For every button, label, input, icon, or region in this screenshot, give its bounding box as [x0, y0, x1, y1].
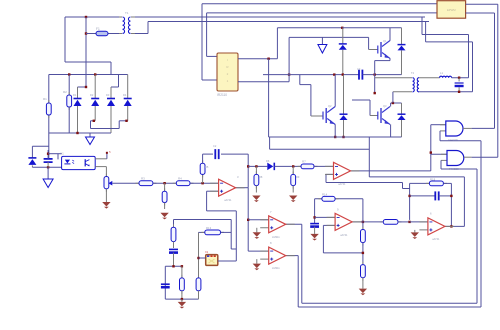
wire lamp right — [218, 260, 237, 262]
diode D8 leg — [342, 28, 344, 44]
transistor Q2 — [325, 108, 327, 123]
diode D7 — [401, 28, 403, 45]
diode D2 — [94, 75, 96, 99]
wire osc top — [174, 219, 232, 221]
wire right bus1 — [480, 141, 482, 307]
potentiometer RP1 — [105, 174, 107, 192]
wire to and2 a — [431, 153, 447, 155]
ground R8 — [252, 196, 260, 201]
wire op6 plus — [256, 259, 258, 264]
resistor R4 — [173, 182, 194, 184]
wire chain5 — [314, 165, 334, 167]
wire osc mid — [165, 265, 182, 267]
wire osc left — [164, 266, 166, 299]
wire and2 out — [472, 156, 498, 158]
resistor R9 divider — [292, 166, 294, 174]
wire op1 output — [236, 187, 249, 189]
wire opto collector — [95, 158, 107, 160]
wire chain3 — [248, 165, 267, 167]
svg-text:uA741: uA741 — [338, 182, 346, 186]
resistor R7 — [298, 165, 318, 167]
svg-text:R2: R2 — [63, 90, 67, 94]
resistor R5 — [202, 174, 204, 183]
svg-text:R13: R13 — [206, 226, 212, 230]
ground op5 — [253, 232, 261, 237]
svg-text:R7: R7 — [302, 160, 306, 164]
wire op5 plus — [256, 228, 258, 233]
svg-text:R3: R3 — [141, 177, 145, 181]
transformer T2 secondary — [417, 78, 419, 92]
wire filter bottom — [419, 91, 473, 93]
wire q3 emitter — [390, 124, 392, 137]
wire bridge top rail — [49, 74, 128, 76]
wire sense B route right — [425, 22, 427, 42]
wire rc top — [410, 182, 430, 184]
capacitor C2 — [215, 149, 218, 159]
svg-text:R8: R8 — [259, 175, 263, 179]
wire lamp left — [199, 257, 206, 259]
optocoupler U1 — [62, 156, 96, 169]
ground op6 — [253, 264, 261, 269]
resistor R6 divider — [164, 183, 166, 191]
node J1 — [85, 16, 87, 18]
wire zener branch — [31, 146, 33, 158]
capacitor C6 — [161, 283, 170, 285]
resistor R3 — [136, 182, 157, 184]
resistor R10 — [173, 224, 175, 244]
op-amp U2 — [210, 183, 245, 191]
wire q1 collector — [389, 28, 391, 41]
svg-text:EPWM: EPWM — [447, 8, 456, 12]
ground R6 — [160, 213, 168, 218]
wire op3 minus — [410, 221, 428, 223]
wire op4 out — [352, 221, 380, 223]
wire op2 out riser — [430, 125, 432, 171]
wire rrow right — [221, 231, 232, 233]
capacitor C3 — [359, 70, 362, 80]
wire sense A — [135, 16, 425, 18]
wire rc left rail — [409, 183, 411, 220]
transistor Q3 — [380, 108, 382, 123]
wire op1 down bus — [247, 188, 249, 251]
op-amp U9 — [260, 220, 295, 228]
wire return to fb — [368, 137, 370, 177]
ground R9 — [289, 196, 297, 201]
wire op4 minus — [315, 216, 336, 218]
wire hv rail2 — [288, 37, 290, 81]
resistor R17 — [380, 221, 402, 223]
wire op5 minus — [248, 219, 269, 221]
wire bridge cross low — [91, 120, 96, 122]
svg-text:D3: D3 — [106, 93, 110, 97]
svg-text:R4: R4 — [178, 177, 182, 181]
resistor R1 — [48, 100, 50, 118]
inductor L1 — [440, 76, 452, 78]
wire to and1 a — [431, 124, 446, 126]
svg-text:R9: R9 — [296, 175, 300, 179]
svg-text:X1: X1 — [205, 250, 209, 254]
wire osc rail — [165, 298, 198, 300]
capacitor C8 — [410, 195, 436, 197]
diode D9 — [401, 103, 403, 114]
wire rc right rail — [450, 183, 452, 226]
ground op4 — [314, 227, 316, 234]
wire op3 out riser — [463, 177, 465, 227]
and gate U8 — [441, 153, 447, 155]
resistor R11 — [181, 266, 183, 278]
wire chain4 — [274, 165, 301, 167]
svg-text:D6: D6 — [266, 159, 270, 163]
ground osc — [181, 299, 183, 302]
wire q2 collector — [334, 75, 336, 107]
diode D3 — [110, 87, 112, 99]
wire bridge bottom rail — [49, 132, 111, 134]
node bottom rail — [76, 132, 78, 134]
wire return rect — [269, 136, 402, 138]
diode D8b — [343, 75, 345, 115]
svg-text:C2: C2 — [213, 144, 217, 148]
wire bus A — [201, 4, 203, 80]
wire chain1 — [153, 182, 176, 184]
wire op2 out — [351, 170, 431, 172]
wire op4 plus — [323, 224, 335, 226]
resistor R18 — [426, 182, 447, 184]
and gate U7 — [440, 124, 446, 126]
wire right bus2 — [476, 169, 478, 303]
svg-text:L1: L1 — [440, 71, 444, 75]
wire bridge jumper1 — [78, 86, 87, 88]
capacitor C4 — [458, 78, 460, 82]
wire gate Q1 — [368, 37, 370, 49]
svg-text:74HC08: 74HC08 — [448, 138, 458, 142]
wire cap node — [32, 166, 61, 168]
wire op1 out vertical — [247, 154, 249, 188]
transistor Q1 — [380, 42, 382, 57]
svg-text:LM311: LM311 — [272, 266, 280, 270]
wire op3 out — [445, 225, 465, 227]
wire q3 collector — [390, 103, 392, 107]
wire op5 out — [286, 223, 302, 225]
svg-text:U1: U1 — [60, 152, 64, 156]
ground op3 — [411, 232, 419, 237]
wire opto emitter — [95, 166, 106, 168]
svg-text:Q2: Q2 — [328, 104, 332, 108]
wire rrow left — [199, 231, 205, 233]
wire op1 plus loop — [207, 190, 219, 192]
ground divider — [359, 289, 367, 294]
wire phase rail right — [362, 74, 401, 76]
wire op4 left rail — [314, 199, 316, 224]
wire cap top — [47, 150, 49, 159]
wire phase rail — [263, 74, 359, 76]
op-amp U11 — [327, 217, 362, 225]
ground under cap — [47, 167, 49, 179]
resistor R14 — [318, 198, 338, 200]
resistor R13 — [201, 231, 224, 233]
svg-text:uA741: uA741 — [432, 237, 440, 241]
svg-text:Q1: Q1 — [383, 39, 387, 43]
svg-text:D2: D2 — [90, 93, 94, 97]
svg-text:Q3: Q3 — [383, 104, 387, 108]
ground bridge — [89, 133, 91, 137]
wire sense B — [135, 33, 148, 35]
wire input loop top — [65, 16, 122, 18]
wire opto anode — [48, 153, 62, 155]
node rail junctions — [68, 73, 70, 75]
wire phase riser — [374, 61, 376, 94]
node J2 — [85, 32, 87, 34]
wire driver out1 — [238, 58, 277, 60]
wire AC drop — [85, 17, 87, 87]
transformer T1 secondary — [128, 17, 130, 33]
svg-text:R1: R1 — [43, 97, 47, 101]
transformer T1 primary — [119, 16, 122, 18]
resistor R8 divider — [255, 166, 257, 174]
svg-text:T1: T1 — [125, 11, 129, 15]
wire pot bottom — [105, 189, 107, 202]
transformer T2 primary — [375, 77, 412, 79]
control box U6 — [437, 1, 466, 19]
svg-text:D1: D1 — [73, 93, 77, 97]
wire op4 fb top — [315, 198, 363, 200]
wire op4 divider — [362, 199, 364, 230]
wire q1 emitter — [389, 58, 391, 60]
wire gate q3 stub — [369, 100, 371, 116]
svg-text:R5: R5 — [205, 165, 209, 169]
resistor R2 — [68, 75, 70, 96]
wire rc top right — [443, 182, 451, 184]
wire and1 out — [472, 127, 495, 129]
wire and1 b — [439, 131, 441, 141]
capacitor C7 — [310, 223, 319, 225]
capacitor C5 — [169, 248, 178, 250]
wire gate q2 path — [299, 75, 301, 85]
svg-text:D4: D4 — [123, 93, 127, 97]
resistor R12 — [198, 232, 200, 278]
diode D4 — [127, 75, 129, 99]
ground hbridge — [321, 37, 323, 44]
wire bus B — [206, 13, 208, 57]
wire wiper — [112, 182, 139, 184]
svg-text:uA741: uA741 — [340, 233, 348, 237]
svg-text:uA741: uA741 — [224, 198, 232, 202]
wire q2 emitter — [334, 124, 336, 137]
wire fuse branch — [86, 33, 96, 35]
wire filter node — [452, 77, 469, 79]
diode D1 — [77, 87, 79, 99]
wire bottom loop1 — [302, 302, 477, 304]
wire fb riser — [402, 183, 404, 189]
wire sense A route right — [421, 17, 423, 35]
svg-text:IR2110: IR2110 — [217, 93, 227, 97]
svg-text:R18: R18 — [430, 178, 436, 182]
wire box right1 — [466, 3, 498, 5]
wire op6 minus — [248, 250, 269, 252]
ground pot — [102, 202, 110, 207]
svg-text:F1: F1 — [96, 27, 100, 31]
op-amp U12 — [419, 222, 454, 230]
driver box U4 — [217, 53, 238, 91]
wire bottom loop2 — [298, 306, 481, 308]
fuse F1 — [96, 31, 108, 35]
wire t2 prim bottom — [393, 91, 412, 93]
diode D5 — [28, 157, 36, 159]
wire hv rail1 — [276, 28, 278, 59]
op-amp U10 — [260, 251, 295, 259]
svg-text:LM311: LM311 — [272, 235, 280, 239]
resistor R16 — [362, 262, 364, 281]
wire op2 minus fb — [326, 173, 334, 175]
wire driver out2 — [238, 81, 289, 83]
svg-text:C3: C3 — [357, 67, 361, 71]
wire op6 out — [286, 255, 299, 257]
wire op3 plus — [414, 230, 416, 233]
svg-text:R14: R14 — [322, 193, 328, 197]
wire bridge jumper2 — [111, 86, 119, 88]
lamp X1 — [206, 255, 218, 266]
wire and2 b — [440, 160, 442, 169]
wire left rail — [48, 75, 50, 104]
wire op1 feedback — [203, 153, 213, 155]
capacitor C1 — [44, 159, 53, 162]
wire chain2 — [190, 182, 219, 184]
diode D6 — [267, 163, 273, 171]
op-amp U3 — [325, 166, 360, 174]
wire box right2 — [466, 12, 495, 14]
